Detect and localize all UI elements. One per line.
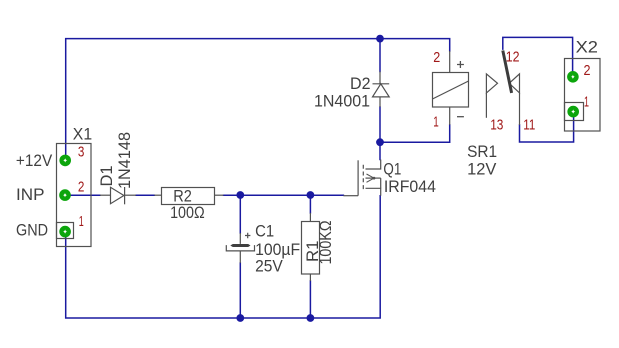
svg-text:2: 2	[584, 62, 591, 79]
svg-text:1: 1	[584, 94, 589, 111]
svg-text:25V: 25V	[255, 256, 283, 275]
svg-text:GND: GND	[16, 221, 48, 240]
svg-text:D2: D2	[350, 74, 371, 93]
svg-text:+12V: +12V	[16, 151, 53, 170]
svg-text:C1: C1	[255, 222, 274, 241]
svg-text:X1: X1	[73, 125, 92, 144]
svg-text:1N4148: 1N4148	[115, 132, 134, 189]
svg-text:3: 3	[78, 144, 85, 161]
svg-text:1: 1	[79, 213, 84, 230]
svg-text:2: 2	[78, 179, 85, 196]
svg-text:13: 13	[490, 117, 503, 134]
svg-text:Q1: Q1	[383, 160, 401, 179]
svg-text:INP: INP	[16, 185, 45, 204]
svg-text:IRF044: IRF044	[384, 177, 436, 196]
svg-text:SR1: SR1	[467, 142, 497, 161]
svg-text:100KΩ: 100KΩ	[316, 221, 335, 265]
svg-text:D1: D1	[97, 166, 116, 187]
svg-text:12V: 12V	[467, 160, 497, 179]
svg-text:1N4001: 1N4001	[314, 91, 370, 110]
svg-text:1: 1	[433, 113, 439, 130]
svg-text:100Ω: 100Ω	[170, 203, 205, 222]
svg-text:11: 11	[523, 117, 535, 134]
svg-text:12: 12	[506, 49, 520, 66]
svg-text:X2: X2	[576, 38, 598, 57]
svg-text:2: 2	[433, 49, 440, 66]
